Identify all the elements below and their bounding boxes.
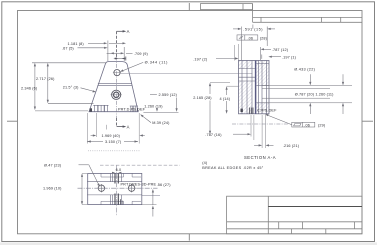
svg-text:.709 (9): .709 (9)	[134, 52, 149, 56]
dim .709 (9)	[107, 52, 149, 56]
dim .197 (2)	[193, 44, 238, 61]
dim 21.5 deg	[63, 86, 96, 93]
svg-text:BREAK ALL EDGES .02R x 45°: BREAK ALL EDGES .02R x 45°	[202, 166, 263, 170]
svg-text:(28): (28)	[260, 36, 268, 40]
cutting plane A top	[117, 30, 127, 58]
svg-text:SECTION A-A: SECTION A-A	[244, 155, 276, 160]
svg-text:C?PS.DEF: C?PS.DEF	[257, 109, 277, 113]
svg-text:2.559 (12): 2.559 (12)	[159, 93, 178, 97]
small dim marks at plan bottom center	[118, 199, 123, 204]
dim 2.559 (12)	[150, 93, 178, 112]
plan view bottom recess band	[101, 201, 141, 204]
svg-text:Ø.787 (20) 1.260 (11): Ø.787 (20) 1.260 (11)	[295, 93, 334, 97]
plan view hole right	[127, 184, 135, 192]
front view bottom-right slot lines	[130, 106, 138, 112]
svg-text:A: A	[127, 29, 130, 34]
section view left body hatched	[239, 61, 270, 114]
section bold center line	[255, 61, 257, 114]
svg-text:.56 (27): .56 (27)	[157, 183, 172, 187]
border center tick bottom	[188, 234, 190, 241]
dim 6.0 plan top	[112, 168, 121, 174]
svg-text:6.0: 6.0	[116, 168, 122, 172]
front view groove double line	[98, 84, 133, 86]
svg-text:1.969 (40): 1.969 (40)	[102, 134, 121, 138]
dim .787 (16)	[205, 115, 254, 140]
svg-text:.67 (5): .67 (5)	[62, 46, 74, 50]
svg-text:.06: .06	[248, 37, 254, 41]
plan view rectangle	[88, 173, 142, 204]
title block	[227, 196, 362, 234]
border center tick top	[188, 3, 190, 11]
plan view horizontal centerline	[78, 187, 158, 189]
svg-text:.591 (15): .591 (15)	[243, 28, 263, 32]
dim .984 (14)	[220, 86, 239, 114]
counterbore circle pair	[112, 90, 121, 99]
section lower dash axis	[232, 123, 289, 125]
section view internal verticals	[242, 61, 267, 114]
cutting plane A bottom	[117, 118, 127, 128]
plan view hole left	[97, 184, 105, 192]
border center tick left	[7, 120, 18, 122]
svg-text:M.39 (24): M.39 (24)	[152, 121, 170, 125]
svg-text:3.150 (7): 3.150 (7)	[105, 140, 122, 144]
svg-text:A: A	[127, 125, 130, 130]
dim 3.150 (7) row	[87, 140, 138, 144]
feature control frame (28)	[237, 35, 268, 41]
svg-text:.197 (2): .197 (2)	[193, 57, 208, 61]
section bottom slot marks	[250, 108, 254, 114]
dim 1.181 (8)	[68, 41, 127, 62]
hole axis line shared to section	[120, 72, 252, 74]
svg-text:.06: .06	[304, 124, 310, 128]
dim .216 (21)	[254, 115, 300, 148]
svg-text:2.165 (28): 2.165 (28)	[193, 96, 212, 100]
svg-text:1.260 (19): 1.260 (19)	[144, 104, 163, 108]
svg-text:2.717 (26): 2.717 (26)	[36, 77, 55, 81]
dim 1.969 (40) row	[91, 134, 145, 138]
dim arrows above top edge	[114, 57, 126, 61]
plan view vertical centerline	[116, 166, 118, 217]
svg-text:1.969 (10): 1.969 (10)	[43, 187, 62, 191]
dim .591 (15)	[233, 25, 275, 61]
dim 2.346 (6)	[21, 63, 88, 111]
dim .67 (5)	[62, 46, 108, 50]
svg-text:4 (14): 4 (14)	[220, 97, 231, 101]
svg-text:.787 (12): .787 (12)	[272, 48, 289, 52]
dim Ø.433 (22)	[294, 68, 344, 86]
revision block header box	[201, 4, 253, 10]
section view outline	[239, 61, 270, 114]
plan view center slot top	[110, 173, 121, 183]
front view vertical centerline	[116, 57, 118, 119]
border center tick right	[362, 120, 373, 122]
extension lines below front view	[87, 113, 139, 144]
dim stub below plan bottom	[152, 206, 154, 217]
dim Ø.787 (20) 1.260 (11)	[295, 93, 344, 114]
plan view inner horizontals	[87, 182, 160, 196]
svg-text:1.181 (8): 1.181 (8)	[68, 42, 85, 46]
svg-text:PRT.DRES-3D-PRE: PRT.DRES-3D-PRE	[121, 183, 157, 187]
plan view top recess band	[101, 173, 141, 177]
svg-text:2.346 (6): 2.346 (6)	[21, 86, 38, 90]
svg-text:Ø.47 (23): Ø.47 (23)	[44, 163, 62, 167]
datum flag bottom-left	[90, 108, 92, 111]
svg-text:PRT.D PS.DEF: PRT.D PS.DEF	[118, 107, 146, 111]
dim .787 (12)	[261, 47, 289, 60]
dim Ø.47 (23) leader	[44, 163, 101, 186]
front view bottom-left slot lines	[93, 105, 108, 111]
dim .197 (1)	[262, 55, 297, 60]
svg-text:Ø.433 (22): Ø.433 (22)	[294, 68, 315, 72]
dim Ø.344 leader	[120, 61, 168, 72]
hole center ticks	[111, 73, 122, 95]
dim 2.717 (26)	[32, 63, 107, 104]
feature control frame (29)	[265, 114, 326, 128]
hole circle small (top)	[114, 70, 120, 76]
svg-text:.787 (16): .787 (16)	[205, 133, 222, 137]
phantom dotted line below front view	[88, 150, 141, 152]
svg-text:Ø.344 (11): Ø.344 (11)	[145, 61, 169, 65]
dim 1.260 (19)	[143, 104, 178, 112]
hole extension lines to right	[262, 85, 352, 102]
bottom window strip	[0, 242, 377, 245]
revision table	[253, 4, 362, 23]
svg-text:(29): (29)	[318, 124, 326, 128]
long dashed line mid-left	[100, 164, 180, 166]
dim 2.165 (28)	[193, 83, 230, 135]
plan view center slot bottom	[110, 194, 121, 205]
section view internal horizontals	[239, 64, 270, 103]
dim 1.969 (10) plan left	[43, 173, 87, 204]
dim M.39 (24) leader	[140, 114, 170, 125]
svg-text:.197 (1): .197 (1)	[282, 55, 297, 59]
dim .56 (27) plan right	[142, 183, 172, 205]
front view trapezoid outline	[89, 62, 138, 112]
section datum flag	[241, 109, 243, 112]
svg-text:.216 (21): .216 (21)	[283, 144, 300, 148]
svg-text:(4): (4)	[202, 161, 208, 165]
svg-text:21.5° (3): 21.5° (3)	[63, 86, 79, 90]
